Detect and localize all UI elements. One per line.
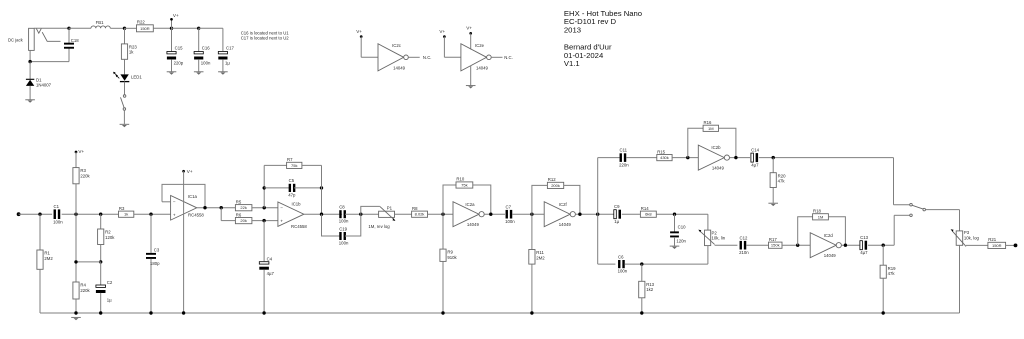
svg-text:100n: 100n: [505, 219, 515, 224]
svg-text:−: −: [280, 206, 283, 211]
wire IC1a feedback loop: [162, 184, 205, 207]
node IC2b in: [686, 156, 689, 159]
node rail: [99, 311, 102, 314]
node jack/C18: [67, 27, 70, 30]
svg-text:DC jack: DC jack: [8, 38, 24, 43]
node IC2b out: [734, 156, 737, 159]
resistor R15 430k: [657, 149, 699, 160]
V+ supply: [170, 13, 179, 28]
svg-text:P1: P1: [387, 206, 393, 211]
svg-text:1M: 1M: [708, 126, 714, 131]
svg-text:1µ: 1µ: [614, 219, 619, 224]
capacitor C9 1u: [614, 204, 621, 224]
resistor R14 6k8: [640, 206, 708, 217]
wire: [470, 66, 472, 86]
node C10 tap: [673, 213, 676, 216]
node rail: [882, 311, 885, 314]
wire IC1a V+/V-: [183, 171, 185, 313]
svg-text:220n: 220n: [619, 162, 629, 167]
title block: [564, 9, 642, 68]
wire P2 wiper: [715, 244, 738, 246]
svg-text:14049: 14049: [712, 165, 725, 170]
svg-text:20k: 20k: [240, 218, 246, 223]
svg-text:47k: 47k: [778, 179, 786, 184]
svg-text:C14: C14: [751, 148, 759, 153]
svg-text:120n: 120n: [676, 238, 686, 243]
resistor R23 1k: [121, 28, 137, 74]
svg-text:V+: V+: [187, 169, 193, 174]
capacitor C7 100n: [505, 204, 515, 224]
ground: [218, 72, 228, 75]
DC jack J1: [8, 28, 61, 50]
svg-text:V+: V+: [466, 26, 472, 31]
op-amp IC1b RC4558: [278, 202, 307, 229]
svg-text:10k, log: 10k, log: [964, 236, 980, 241]
svg-text:RC4558: RC4558: [291, 224, 307, 229]
wire: [34, 27, 69, 29]
svg-text:14049: 14049: [393, 66, 406, 71]
svg-text:100n: 100n: [339, 219, 349, 224]
svg-text:IC2e: IC2e: [475, 43, 485, 48]
svg-text:C16: C16: [202, 45, 210, 50]
capacitor C18: [64, 28, 79, 61]
wire: [62, 213, 119, 215]
capacitor C4 4u7: [259, 221, 274, 313]
wire: [513, 213, 545, 215]
svg-text:14049: 14049: [476, 66, 489, 71]
node C3 tap: [149, 213, 152, 216]
wire IC1a output: [197, 207, 236, 209]
wire: [470, 33, 472, 49]
inverter IC2e 14049: [461, 43, 491, 71]
ground: [71, 317, 81, 320]
capacitor C5 47p: [264, 178, 321, 197]
capacitor C8 100n: [339, 205, 349, 224]
capacitor C10 120n: [670, 214, 686, 246]
node IC1b out: [320, 213, 323, 216]
svg-text:1k2: 1k2: [646, 287, 654, 292]
capacitor C2 1u: [96, 262, 113, 313]
ground: [120, 124, 130, 127]
wire ground rail: [40, 312, 960, 314]
capacitor C13 4u7: [860, 235, 869, 255]
resistor R1 2M2: [37, 214, 53, 313]
ground: [466, 86, 476, 89]
node IC2d out: [844, 244, 847, 247]
node C5 left: [263, 186, 266, 189]
svg-text:C17 is located next to U2: C17 is located next to U2: [241, 36, 290, 41]
capacitor C1 100n: [53, 204, 63, 225]
node rail: [262, 311, 265, 314]
node rail: [441, 311, 444, 314]
resistor R16 1M (feedback): [688, 120, 736, 158]
svg-text:14049: 14049: [467, 222, 480, 227]
node V+ rail: [170, 27, 173, 30]
svg-text:C3: C3: [154, 248, 160, 253]
svg-text:75k: 75k: [291, 163, 297, 168]
svg-text:N.C.: N.C.: [423, 55, 432, 60]
svg-text:220k: 220k: [80, 173, 90, 178]
resistor R13 1k2: [639, 264, 655, 313]
node IC2d in: [796, 244, 799, 247]
wire R7/C5 left leg: [263, 165, 265, 207]
inverter IC2b 14049: [698, 145, 729, 170]
wire: [395, 213, 412, 215]
resistor R11 2M2: [529, 214, 545, 313]
svg-text:4µ7: 4µ7: [751, 163, 759, 168]
svg-text:V+: V+: [439, 29, 445, 34]
input terminal: [17, 212, 21, 216]
resistor R9 910k: [440, 214, 458, 313]
svg-text:R12: R12: [548, 177, 556, 182]
ground: [25, 100, 35, 103]
switch contact: [910, 203, 913, 206]
inverter IC2a 14049: [453, 202, 484, 228]
svg-text:150R: 150R: [992, 243, 1002, 248]
svg-text:C17: C17: [226, 45, 234, 50]
inverter IC2d 14049: [810, 233, 841, 259]
output terminal: [1014, 244, 1018, 248]
wire: [28, 50, 69, 63]
svg-text:2M2: 2M2: [536, 255, 545, 260]
note text: [241, 31, 290, 41]
svg-text:V+: V+: [78, 149, 84, 154]
svg-text:C2: C2: [107, 280, 113, 285]
svg-text:C8: C8: [339, 205, 345, 210]
svg-text:P3: P3: [964, 230, 970, 235]
wire P3 bottom: [959, 245, 961, 313]
switch contact: [910, 214, 913, 217]
resistor R19 47k: [880, 245, 896, 313]
svg-text:100n: 100n: [53, 219, 63, 224]
resistor R5 22k: [235, 199, 278, 210]
svg-text:14049: 14049: [824, 253, 837, 258]
capacitor C19 100n: [322, 214, 361, 245]
wire switch throw B: [894, 215, 910, 245]
wire: [622, 213, 641, 215]
node R2 top: [99, 213, 102, 216]
diode D1 1N4007: [26, 62, 52, 100]
svg-text:C12: C12: [740, 235, 748, 240]
svg-text:14049: 14049: [559, 222, 572, 227]
node IC2f out: [578, 213, 581, 216]
svg-text:C18: C18: [71, 38, 79, 43]
svg-text:210n: 210n: [739, 250, 749, 255]
capacitor C17 1u: [218, 45, 234, 71]
svg-text:150R: 150R: [140, 26, 150, 31]
svg-text:150k: 150k: [771, 243, 780, 248]
node feedback/output: [203, 206, 206, 209]
svg-text:1µ: 1µ: [107, 297, 112, 302]
node IC2a out: [489, 213, 492, 216]
potentiometer P3 10k log: [951, 229, 980, 246]
svg-text:V+: V+: [356, 29, 362, 34]
capacitor C14 4u7: [751, 148, 760, 168]
V+ supply: [75, 149, 85, 154]
wire IC2d out: [841, 244, 859, 246]
svg-text:R18: R18: [813, 209, 821, 214]
svg-text:IC2b: IC2b: [711, 145, 721, 150]
wire: [345, 213, 379, 215]
svg-text:1M: 1M: [818, 214, 824, 219]
svg-text:C13: C13: [860, 235, 868, 240]
switch SW1 (LED): [121, 82, 126, 124]
svg-text:R10: R10: [456, 177, 464, 182]
svg-text:C10: C10: [678, 224, 686, 229]
node rail: [149, 311, 152, 314]
wire IC2a out: [484, 213, 505, 215]
svg-text:100n: 100n: [339, 240, 349, 245]
wire: [868, 244, 894, 246]
svg-text:75k: 75k: [461, 183, 467, 188]
node tone split: [596, 213, 599, 216]
inductor FB1: [69, 20, 125, 28]
svg-text:R15: R15: [657, 149, 665, 154]
svg-text:8.02k: 8.02k: [415, 212, 425, 217]
svg-text:FB1: FB1: [96, 20, 104, 25]
svg-text:4µ7: 4µ7: [267, 271, 275, 276]
wire N.C.: [408, 55, 431, 60]
node R2/C2: [74, 260, 102, 263]
resistor R7 75k: [264, 157, 321, 168]
svg-text:V1.1: V1.1: [564, 59, 580, 68]
svg-text:1µ: 1µ: [225, 60, 230, 65]
node FB1/R23: [123, 27, 126, 30]
wire: [926, 210, 960, 231]
svg-text:R16: R16: [704, 120, 712, 125]
svg-text:430k: 430k: [660, 155, 669, 160]
svg-text:C15: C15: [175, 45, 183, 50]
svg-text:1M, rev log: 1M, rev log: [368, 224, 390, 229]
capacitor C11 220n: [619, 148, 629, 168]
svg-text:47k: 47k: [888, 271, 896, 276]
resistor R8 8.02k: [412, 206, 453, 217]
svg-text:IC2a: IC2a: [465, 202, 475, 207]
node C5 right: [320, 186, 323, 189]
svg-text:120k: 120k: [105, 235, 115, 240]
wire: [221, 208, 235, 221]
svg-text:4µ7: 4µ7: [860, 250, 868, 255]
resistor R2 120k: [98, 214, 116, 262]
wire: [627, 157, 657, 159]
svg-text:C4: C4: [267, 256, 273, 261]
V+ supply: [439, 29, 445, 38]
wire: [361, 37, 378, 58]
svg-text:+: +: [280, 219, 283, 224]
svg-text:R3: R3: [119, 206, 125, 211]
svg-text:IC2c: IC2c: [392, 43, 402, 48]
capacitor C16 100n: [194, 28, 211, 71]
svg-text:22k: 22k: [240, 205, 246, 210]
svg-text:200k: 200k: [551, 183, 560, 188]
node C19 right: [359, 213, 362, 216]
svg-text:2M2: 2M2: [44, 256, 53, 261]
potentiometer P1 1M rev log: [361, 206, 396, 229]
wire P3 wiper out: [966, 244, 988, 246]
svg-text:180p: 180p: [150, 261, 160, 266]
resistor R12 200k (feedback): [532, 177, 580, 214]
potentiometer P2 10k lin: [698, 230, 725, 246]
svg-text:1k: 1k: [124, 212, 128, 217]
wire to C11: [598, 158, 620, 215]
capacitor C6 100n: [618, 254, 628, 273]
svg-text:LED1: LED1: [131, 74, 142, 79]
svg-text:47p: 47p: [288, 192, 296, 197]
svg-text:220p: 220p: [174, 60, 184, 65]
V+ supply: [356, 29, 362, 38]
node R5/R6 split: [220, 206, 223, 209]
svg-text:1N4007: 1N4007: [36, 82, 52, 87]
node R13 tap: [640, 262, 643, 265]
node rail: [530, 311, 533, 314]
svg-text:2013: 2013: [564, 26, 581, 35]
svg-text:100n: 100n: [201, 60, 211, 65]
wire switch throw A: [894, 158, 910, 205]
svg-text:C9: C9: [614, 204, 620, 209]
svg-text:C11: C11: [620, 148, 628, 153]
switch common: [923, 208, 926, 211]
wire IC2b out: [730, 157, 751, 159]
LED1: [113, 72, 142, 82]
inverter IC2c 14049: [378, 43, 408, 71]
capacitor C15 220p: [167, 28, 184, 71]
resistor R3 1k (series): [119, 206, 171, 217]
resistor R17 150k: [769, 237, 811, 248]
wire: [1006, 244, 1016, 246]
resistor R20 47k: [770, 158, 786, 203]
node rail: [182, 311, 185, 314]
svg-text:100n: 100n: [618, 269, 628, 274]
V+ supply: [466, 26, 472, 35]
svg-text:R7: R7: [287, 157, 293, 162]
node R5/R7 junction: [263, 206, 266, 209]
wire: [625, 246, 708, 265]
wire: [444, 37, 461, 58]
svg-text:R6: R6: [236, 212, 242, 217]
svg-text:IC2f: IC2f: [559, 202, 568, 207]
svg-text:C5: C5: [289, 178, 295, 183]
wire: [19, 213, 53, 215]
svg-text:+: +: [173, 213, 176, 218]
node R20 tap: [772, 156, 775, 159]
resistor R4 220k: [73, 214, 91, 313]
node R1/input: [38, 213, 41, 216]
svg-text:6k8: 6k8: [645, 212, 652, 217]
wire: [759, 157, 894, 159]
svg-text:C19: C19: [339, 226, 347, 231]
svg-text:C1: C1: [54, 204, 60, 209]
svg-text:V+: V+: [173, 13, 179, 18]
resistor R3 220k: [73, 152, 91, 214]
svg-text:N.C.: N.C.: [504, 55, 513, 60]
svg-text:IC1a: IC1a: [188, 194, 198, 199]
ground: [194, 72, 204, 75]
capacitor C12 210n: [739, 235, 749, 255]
svg-text:10k, lin: 10k, lin: [712, 236, 726, 241]
svg-text:RC4558: RC4558: [188, 212, 204, 217]
resistor R6 20k: [235, 212, 278, 223]
svg-text:C7: C7: [506, 204, 512, 209]
V+ supply: [182, 169, 193, 174]
node C13/R19: [882, 244, 885, 247]
ground: [167, 72, 177, 75]
wire: [172, 27, 199, 29]
wire to C6: [598, 214, 616, 264]
resistor R21 150R: [988, 237, 1006, 248]
svg-text:910k: 910k: [447, 255, 457, 260]
wire IC1b output: [304, 213, 342, 215]
node C16 tap: [197, 27, 200, 30]
svg-text:R22: R22: [137, 20, 145, 25]
svg-text:R21: R21: [988, 237, 996, 242]
capacitor C3 180p: [146, 214, 160, 313]
svg-text:R8: R8: [412, 206, 418, 211]
wire N.C.: [491, 55, 513, 60]
node C4 tap: [262, 219, 265, 222]
svg-text:220k: 220k: [80, 288, 90, 293]
svg-text:C6: C6: [618, 254, 624, 259]
wire IC2f out: [575, 213, 614, 215]
node rail: [640, 311, 643, 314]
resistor R22 150R: [125, 20, 172, 32]
wire: [747, 244, 769, 246]
node IC2f in: [530, 213, 533, 216]
ground: [768, 203, 778, 206]
svg-text:R5: R5: [236, 199, 242, 204]
inverter IC2f 14049: [544, 202, 575, 228]
svg-text:−: −: [173, 200, 176, 205]
svg-text:R17: R17: [769, 237, 777, 242]
wire R7/C5 right leg: [321, 165, 323, 214]
svg-text:R14: R14: [641, 206, 649, 211]
ground: [670, 246, 680, 249]
svg-text:IC2d: IC2d: [824, 233, 834, 238]
resistor R10 75k (feedback): [443, 177, 491, 215]
switch lever: [912, 205, 923, 209]
node IC2a in: [441, 213, 444, 216]
node bias: [74, 213, 77, 216]
wire: [707, 214, 709, 230]
op-amp IC1a RC4558: [171, 194, 205, 220]
svg-text:IC1b: IC1b: [292, 202, 302, 207]
wire: [199, 28, 223, 51]
node rail: [74, 311, 77, 314]
resistor R18 1M (feedback): [798, 209, 846, 246]
